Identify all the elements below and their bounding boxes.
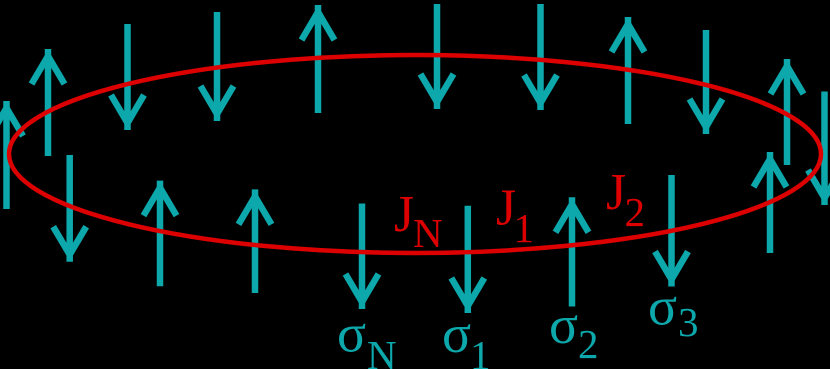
spin arrow down A4 <box>201 12 234 121</box>
svg-text:J: J <box>394 186 414 243</box>
label sigma_3 <box>648 277 699 346</box>
svg-text:N: N <box>413 210 443 256</box>
label J_1 <box>496 179 534 251</box>
spin arrow down A9 <box>690 30 723 134</box>
svg-text:2: 2 <box>625 189 646 235</box>
svg-text:3: 3 <box>678 299 699 345</box>
svg-text:σ: σ <box>337 304 366 364</box>
spin arrow up A8 <box>612 17 645 124</box>
spin arrow down B7 (sigma_3) <box>655 175 688 287</box>
ring (red ellipse) <box>9 55 821 253</box>
spin arrow down B4 (sigma_N) <box>346 204 379 310</box>
svg-text:1: 1 <box>470 332 491 369</box>
label J_2 <box>606 164 645 235</box>
svg-text:σ: σ <box>648 277 677 337</box>
svg-text:2: 2 <box>578 321 599 367</box>
spin arrow up B3 <box>239 189 272 293</box>
spin arrow up A2 <box>32 49 65 156</box>
spin arrow down A3 <box>111 24 144 130</box>
spin arrow up B8 <box>754 152 787 253</box>
spin arrow up A5 <box>302 5 335 113</box>
spin arrow down B1 <box>53 155 86 262</box>
svg-text:N: N <box>367 332 397 369</box>
label sigma_N <box>337 304 397 369</box>
spin arrow up A1 (left edge) <box>0 101 23 209</box>
label J_N <box>394 186 443 256</box>
spin arrow up A10 <box>771 59 804 165</box>
label sigma_2 <box>549 295 599 367</box>
spin arrow down B5 (sigma_1) <box>451 206 484 313</box>
spin arrow up B6 (sigma_2) <box>556 197 589 306</box>
svg-text:1: 1 <box>514 205 535 251</box>
spin arrow down A7 <box>524 4 557 110</box>
svg-text:J: J <box>606 164 626 221</box>
label sigma_1 <box>442 304 491 369</box>
svg-text:σ: σ <box>442 304 471 364</box>
spin arrow down A11 (right edge) <box>808 92 830 206</box>
spin arrow up B2 <box>144 181 177 287</box>
svg-text:σ: σ <box>549 295 578 355</box>
spin arrow down A6 <box>421 4 454 109</box>
